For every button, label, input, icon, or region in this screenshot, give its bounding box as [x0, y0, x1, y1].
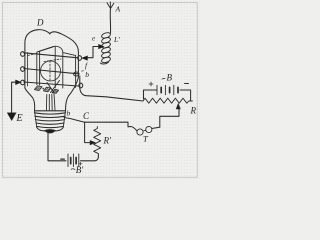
rheostat R'	[94, 127, 101, 156]
arrowhead at coil	[99, 44, 105, 48]
wire T to node C	[85, 122, 160, 131]
wire battery B left down to R	[144, 90, 157, 99]
svg-text:L′: L′	[113, 35, 120, 44]
wrap wire 1	[24, 53, 78, 58]
svg-text:E: E	[16, 113, 23, 124]
svg-text:b: b	[85, 70, 89, 79]
wiper arrow of R	[177, 109, 180, 113]
wire b to plate circuit	[80, 76, 143, 101]
screw base shell	[35, 110, 66, 112]
bulb neck left	[25, 88, 35, 111]
stem wires	[46, 94, 55, 110]
base bottom contact	[45, 130, 56, 134]
battery B minus	[185, 83, 189, 85]
battery B' cells	[68, 154, 79, 167]
wrap wire 1 right loop	[78, 56, 82, 61]
svg-text:B′: B′	[76, 165, 84, 175]
wrap wire 2 right loop	[74, 72, 79, 76]
wire R to battery B right	[180, 90, 191, 101]
wrap wire 1 left loop	[21, 52, 25, 57]
resistor R	[143, 98, 192, 103]
dash before b	[81, 70, 84, 73]
svg-text:A: A	[115, 5, 121, 14]
plate (back wing)	[54, 46, 76, 88]
wiper arrowhead at R'	[90, 140, 96, 144]
svg-text:B: B	[167, 73, 173, 83]
R' bottom to battery wire	[81, 155, 99, 160]
label a tick	[43, 88, 44, 89]
battery B plus	[149, 82, 153, 86]
wire e to coil tap	[86, 47, 99, 58]
wrap wire 2 left loop	[21, 67, 25, 72]
ground lead wire	[12, 82, 16, 113]
svg-text:C: C	[83, 111, 90, 121]
svg-text:D: D	[36, 18, 44, 28]
battery B' minus	[61, 158, 65, 160]
faint scan frame	[3, 3, 198, 178]
wrap wire 3 left loop	[21, 80, 25, 85]
svg-text:b: b	[67, 109, 71, 118]
dash before B label	[162, 77, 165, 80]
wire base bottom to battery B'	[48, 133, 66, 161]
battery B' plus	[79, 162, 82, 165]
wire base b to node C	[64, 118, 85, 123]
hidden plate dashes	[44, 59, 61, 62]
wrap wire 3	[24, 82, 78, 86]
dashed axis in circle	[49, 61, 51, 82]
wire wiper to T	[160, 112, 179, 127]
svg-text:e: e	[92, 35, 95, 43]
ground arrow E	[7, 113, 16, 121]
wrap wire 3 right loop	[79, 83, 83, 88]
paper background	[0, 0, 200, 180]
grid circle	[41, 61, 61, 81]
antenna lead	[109, 9, 111, 34]
hidden edge dashes	[28, 54, 37, 56]
node C down to wiper of R'	[85, 122, 91, 142]
plate (front wing)	[37, 46, 55, 87]
ground arrowhead to bulb	[16, 80, 22, 85]
telephone receiver T	[137, 129, 143, 135]
inner wall line	[27, 53, 29, 87]
dash before B' label	[71, 168, 75, 171]
antenna feathers	[107, 2, 114, 9]
svg-text:R′: R′	[103, 136, 112, 146]
arrowhead at wrap1 loop	[82, 56, 88, 60]
filament leads X	[47, 81, 60, 93]
battery B cells	[157, 85, 174, 94]
candelabra feet	[35, 86, 59, 93]
wire between receivers	[143, 129, 146, 132]
feet hatching	[36, 87, 57, 92]
svg-text:R: R	[190, 106, 197, 116]
bulb neck right	[66, 77, 79, 111]
coil L'	[100, 32, 111, 64]
wrap wire 2	[24, 69, 78, 74]
bulb D envelope	[25, 30, 79, 88]
